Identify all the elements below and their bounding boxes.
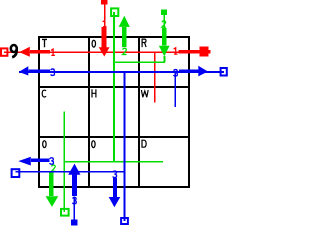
right thick shaft [179, 69, 198, 73]
top thick shaft [102, 27, 107, 48]
right filled square [200, 47, 209, 57]
trunk thin row1 [19, 71, 224, 73]
left arrowhead [19, 47, 30, 57]
word-path puzzle diagram 229x227 [0, 0, 229, 227]
GREEN word 2 [49, 9, 167, 212]
letters [42, 39, 148, 147]
top vertical thin [104, 5, 106, 28]
up-arrow thick shaft [122, 27, 126, 47]
top-right thick shaft [162, 28, 167, 46]
BLUE word 3 [15, 69, 224, 225]
top-right filled square [161, 9, 167, 15]
RED word 1 [4, 0, 210, 102]
top down arrowhead [99, 47, 110, 56]
up-arrow thin to square [73, 197, 75, 220]
trunk thin line row1 [4, 51, 200, 53]
top filled square [101, 0, 107, 5]
row1 horizontal [113, 61, 165, 63]
right thick shaft [179, 50, 200, 54]
bottom-left thick shaft [49, 172, 54, 196]
stub into W cell [154, 53, 156, 103]
cell-C vertical [64, 112, 66, 213]
up-arrow thick shaft [72, 175, 77, 197]
long vertical from top square [113, 12, 115, 163]
row3 horizontal [64, 161, 164, 163]
left thick shaft [28, 69, 50, 73]
floating left-arrow thick shaft [31, 158, 50, 162]
left outline square [1, 48, 7, 55]
big 9 [11, 45, 17, 57]
riser to arrow tip [164, 56, 166, 62]
bottom horizontal [15, 171, 125, 173]
vertical to bottom square [124, 72, 126, 221]
stub into W cell [174, 72, 176, 107]
bottom filled square [71, 220, 78, 226]
left thick shaft [30, 50, 50, 54]
b3 thick shaft [113, 178, 117, 197]
